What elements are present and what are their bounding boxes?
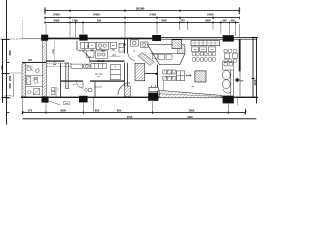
svg-text:3000: 3000 [189, 109, 195, 113]
banquette bench along top wall [191, 40, 220, 45]
dining chairs [192, 52, 215, 61]
svg-text:5400: 5400 [149, 13, 156, 17]
column top third [152, 35, 161, 41]
column top-right [223, 35, 234, 41]
bottom dimension line 1 [23, 109, 246, 115]
svg-text:375: 375 [180, 18, 185, 22]
column bottom second [79, 96, 88, 103]
top wall solid left part [41, 38, 161, 40]
four-pane grid table [177, 71, 185, 81]
svg-text:xxx xxx: xxx xxx [94, 87, 102, 89]
svg-text:2400: 2400 [53, 13, 60, 17]
miscellaneous small annotation texts [7, 44, 194, 105]
top dimension line 2 [45, 17, 239, 20]
kitchen equipment: fridges, stove with burners, worktables, sink [81, 40, 176, 58]
dashed witness to wall corner [22, 21, 24, 40]
hatched floor square at dining entry [172, 40, 182, 49]
crosshatched floor marker square [195, 71, 206, 82]
small fixtures lower-left room [52, 87, 57, 97]
right dining wall [239, 39, 241, 71]
svg-text:30390: 30390 [136, 6, 145, 10]
hatched entrance ramp [159, 90, 222, 97]
fixtures lower room [85, 89, 88, 92]
interior tie line [9, 72, 22, 74]
column top-left [41, 35, 48, 41]
spiral stair S-curve [222, 70, 233, 95]
right seating cluster: booth tables and chairs [223, 49, 238, 70]
diagonal leader at bottom-left column [49, 101, 61, 105]
top wall double line right part [161, 37, 257, 39]
bottom dim labels row 1 [28, 109, 195, 113]
kitchen divider wall and door [124, 39, 126, 53]
svg-text:5400: 5400 [207, 13, 214, 17]
column at entrance [148, 93, 158, 101]
top-left thin wall [21, 38, 41, 40]
dim end slashes [21, 111, 246, 113]
wall y62 [22, 62, 46, 63]
svg-text:3000: 3000 [60, 109, 66, 113]
column top second [79, 35, 87, 41]
svg-text:4240: 4240 [253, 79, 257, 85]
svg-text:340: 340 [222, 18, 227, 22]
svg-text:5400: 5400 [187, 116, 193, 119]
changing rooms: benches, lockers, partition walls [61, 63, 128, 97]
column bottom-right [223, 96, 234, 104]
solid diamond marker with UP label [235, 78, 239, 83]
bottom wall [21, 97, 257, 98]
dining tables row [192, 47, 216, 52]
dash-dot projection line [0, 38, 21, 40]
left dimension lines [2, 0, 10, 125]
bottom witness lines [23, 98, 238, 114]
interior dim line left wing [54, 41, 56, 60]
entrance door frame [149, 87, 158, 91]
svg-text:3400: 3400 [161, 18, 167, 22]
direction arrow [186, 74, 191, 76]
small annotation boxes at bottom wall [64, 102, 70, 105]
hatched service shaft [135, 63, 145, 80]
svg-text:5400: 5400 [93, 13, 100, 17]
bar counter with hatched front band [148, 45, 185, 65]
witness line inner left [13, 74, 15, 97]
svg-text:420: 420 [231, 18, 236, 22]
svg-text:3900: 3900 [9, 50, 12, 56]
svg-text:500: 500 [97, 18, 102, 22]
left rotated dim labels [1, 50, 12, 89]
dashed shelving in left wing [47, 62, 73, 64]
svg-text:900: 900 [1, 65, 4, 70]
door swing at changing room wall [77, 82, 84, 89]
svg-text:800 450: 800 450 [97, 60, 105, 63]
center cluster of small hatched tables [163, 70, 176, 80]
top dimension line 1 [45, 7, 239, 14]
left hatched wall [43, 41, 47, 97]
svg-text:1500: 1500 [9, 75, 12, 81]
svg-text:2400: 2400 [54, 18, 60, 22]
top dimension line 3 [45, 21, 239, 24]
line below table cluster [163, 81, 165, 91]
svg-text:600: 600 [117, 109, 122, 113]
column bottom-left [42, 96, 49, 102]
svg-text:600: 600 [95, 109, 100, 113]
lower rooms divider wall [94, 82, 96, 97]
dim labels row 2 [54, 18, 236, 22]
dim labels row 1 [53, 13, 214, 17]
svg-text:2700: 2700 [127, 116, 133, 119]
svg-text:2950: 2950 [205, 18, 211, 22]
witness lines from top dims to wall [46, 24, 239, 37]
right dimension lines [252, 38, 259, 104]
WC left hatched wall [22, 64, 26, 97]
WC room fixtures: stalls, toilets, basin [26, 64, 43, 95]
svg-text:1500: 1500 [9, 83, 12, 89]
svg-text:375: 375 [28, 109, 33, 113]
bottom dimension line 2 [23, 118, 257, 120]
